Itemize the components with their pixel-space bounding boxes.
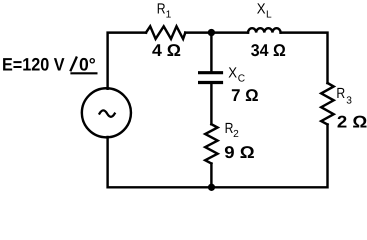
svg-text:2: 2 bbox=[233, 129, 239, 140]
wire R2 to bottom node bbox=[210, 164, 212, 188]
svg-text:7 Ω: 7 Ω bbox=[231, 86, 259, 105]
svg-text:R: R bbox=[225, 121, 234, 137]
svg-text:3: 3 bbox=[346, 95, 352, 106]
wire node A to XL bbox=[211, 31, 248, 33]
angle underline bbox=[70, 72, 97, 74]
svg-text:9 Ω: 9 Ω bbox=[224, 143, 254, 162]
resistor R2 bbox=[205, 124, 217, 163]
svg-text:X: X bbox=[228, 66, 237, 82]
sine symbol inside source bbox=[100, 110, 115, 116]
wire R1 to node A bbox=[185, 31, 211, 33]
svg-text:C: C bbox=[238, 74, 245, 85]
svg-text:X: X bbox=[257, 2, 266, 18]
inductor XL bbox=[248, 28, 281, 32]
svg-text:0°: 0° bbox=[79, 55, 96, 75]
AC source E circle bbox=[82, 88, 131, 137]
node A junction dot bbox=[208, 29, 215, 36]
wire top-left from source up to R1 bbox=[108, 33, 146, 89]
capacitor XC bottom plate bbox=[198, 81, 223, 84]
svg-text:L: L bbox=[266, 10, 272, 21]
capacitor XC top plate bbox=[198, 71, 223, 74]
wire node A down to capacitor bbox=[210, 33, 212, 71]
svg-text:1: 1 bbox=[166, 9, 172, 20]
resistor R1 bbox=[146, 26, 185, 39]
wire XL to top-right corner down to R3 bbox=[281, 33, 328, 83]
wire bottom from middle node to source bbox=[108, 137, 212, 187]
svg-text:R: R bbox=[157, 2, 166, 18]
svg-text:2 Ω: 2 Ω bbox=[337, 113, 367, 132]
resistor R3 bbox=[321, 83, 334, 125]
angle slash of phasor notation bbox=[70, 57, 77, 72]
svg-text:R: R bbox=[336, 86, 345, 102]
svg-text:E=120 V: E=120 V bbox=[2, 55, 65, 75]
wire capacitor to R2 bbox=[210, 84, 212, 124]
wire R3 down to bottom-right corner bbox=[211, 125, 327, 188]
svg-text:34 Ω: 34 Ω bbox=[251, 41, 286, 60]
bottom node junction dot bbox=[208, 184, 215, 191]
svg-text:4 Ω: 4 Ω bbox=[152, 41, 181, 60]
